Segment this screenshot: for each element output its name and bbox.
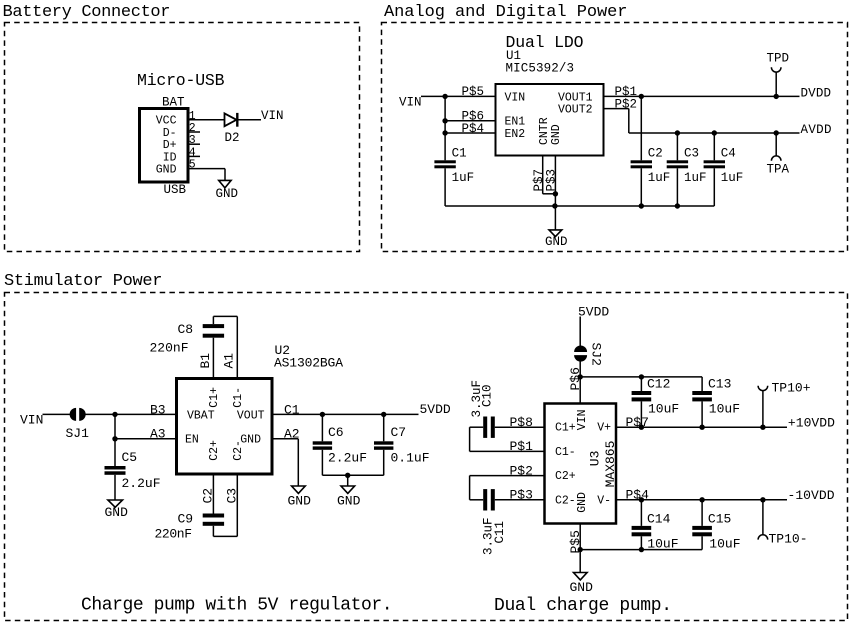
svg-text:C2: C2 <box>648 147 663 161</box>
svg-text:V-: V- <box>597 494 611 507</box>
svg-text:5: 5 <box>189 159 196 172</box>
svg-text:D+: D+ <box>163 139 177 152</box>
svg-text:TPA: TPA <box>767 163 790 177</box>
svg-text:SJ2: SJ2 <box>588 343 603 366</box>
svg-text:1: 1 <box>189 110 196 123</box>
svg-text:C10: C10 <box>481 384 495 407</box>
svg-text:2.2uF: 2.2uF <box>122 476 161 491</box>
svg-text:U3: U3 <box>587 451 602 467</box>
svg-text:-10VDD: -10VDD <box>788 488 835 503</box>
svg-text:C9: C9 <box>178 512 194 527</box>
svg-text:EN2: EN2 <box>505 128 526 141</box>
svg-text:C1-: C1- <box>232 387 245 408</box>
svg-text:C5: C5 <box>122 450 138 465</box>
svg-text:2.2uF: 2.2uF <box>328 451 367 466</box>
svg-text:GND: GND <box>545 235 568 249</box>
svg-text:AVDD: AVDD <box>801 123 832 137</box>
svg-text:VOUT: VOUT <box>237 409 265 422</box>
svg-text:C1+: C1+ <box>555 422 576 435</box>
svg-text:C2+: C2+ <box>208 440 221 461</box>
svg-text:Micro-USB: Micro-USB <box>137 71 225 90</box>
svg-text:VIN: VIN <box>576 409 589 430</box>
svg-text:VCC: VCC <box>156 115 177 128</box>
svg-text:P$3: P$3 <box>545 169 559 192</box>
svg-text:C7: C7 <box>391 425 407 440</box>
svg-text:C1: C1 <box>452 147 467 161</box>
svg-text:VIN: VIN <box>399 95 422 109</box>
svg-text:C2+: C2+ <box>555 470 576 483</box>
svg-text:0.1uF: 0.1uF <box>391 451 430 466</box>
svg-text:10uF: 10uF <box>648 402 679 417</box>
svg-text:GND: GND <box>156 164 177 177</box>
svg-text:TPD: TPD <box>767 52 790 66</box>
svg-text:MIC5392/3: MIC5392/3 <box>506 62 575 76</box>
svg-text:C2: C2 <box>200 488 215 504</box>
svg-text:C3: C3 <box>224 488 239 504</box>
svg-text:C14: C14 <box>647 512 671 527</box>
svg-text:D2: D2 <box>225 131 240 145</box>
svg-text:VOUT2: VOUT2 <box>558 104 593 117</box>
svg-text:1uF: 1uF <box>721 171 744 185</box>
svg-text:1uF: 1uF <box>648 171 671 185</box>
svg-text:Battery Connector: Battery Connector <box>3 3 171 22</box>
svg-text:SJ1: SJ1 <box>66 426 90 441</box>
svg-text:VIN: VIN <box>505 91 526 104</box>
svg-text:TP10+: TP10+ <box>772 381 811 396</box>
svg-text:5VDD: 5VDD <box>578 305 609 320</box>
svg-text:+10VDD: +10VDD <box>788 415 835 430</box>
svg-text:P$4: P$4 <box>626 488 650 503</box>
svg-text:10uF: 10uF <box>709 537 740 552</box>
svg-text:P$5: P$5 <box>462 85 485 99</box>
svg-text:GND: GND <box>105 505 129 520</box>
svg-text:AS1302BGA: AS1302BGA <box>274 356 343 371</box>
svg-text:C1: C1 <box>284 402 300 417</box>
svg-text:P$2: P$2 <box>510 463 533 478</box>
svg-text:ID: ID <box>163 151 177 164</box>
svg-text:VIN: VIN <box>20 412 43 427</box>
svg-text:P$8: P$8 <box>510 415 533 430</box>
svg-text:TP10-: TP10- <box>769 532 808 547</box>
svg-text:A1: A1 <box>222 353 237 369</box>
svg-text:C4: C4 <box>721 147 736 161</box>
svg-text:VOUT1: VOUT1 <box>558 91 593 104</box>
svg-text:3: 3 <box>189 134 196 147</box>
svg-text:Dual charge pump.: Dual charge pump. <box>494 596 672 616</box>
svg-text:A3: A3 <box>150 427 166 442</box>
svg-text:220nF: 220nF <box>150 340 189 355</box>
svg-text:P$6: P$6 <box>568 367 583 390</box>
svg-text:C15: C15 <box>708 512 731 527</box>
svg-text:GND: GND <box>576 492 589 513</box>
svg-text:GND: GND <box>337 493 361 508</box>
svg-text:C2-: C2- <box>555 494 576 507</box>
svg-text:2: 2 <box>189 122 196 135</box>
svg-text:4: 4 <box>189 146 196 159</box>
svg-text:B3: B3 <box>150 402 166 417</box>
svg-text:1uF: 1uF <box>452 171 475 185</box>
svg-text:D-: D- <box>163 127 177 140</box>
svg-text:B1: B1 <box>198 353 213 369</box>
svg-text:Analog and Digital Power: Analog and Digital Power <box>384 3 628 22</box>
svg-text:P$3: P$3 <box>510 488 533 503</box>
svg-text:1uF: 1uF <box>684 171 707 185</box>
svg-text:P$5: P$5 <box>568 530 583 553</box>
svg-text:C2-: C2- <box>232 440 245 461</box>
svg-text:C11: C11 <box>493 521 507 544</box>
svg-text:Stimulator Power: Stimulator Power <box>4 272 163 291</box>
svg-text:C1-: C1- <box>555 446 576 459</box>
svg-text:A2: A2 <box>284 427 300 442</box>
svg-text:CNTR: CNTR <box>538 117 551 145</box>
svg-text:GND: GND <box>216 187 239 201</box>
svg-text:C1+: C1+ <box>208 387 221 408</box>
svg-text:BAT: BAT <box>162 96 185 110</box>
svg-text:GND: GND <box>570 580 594 595</box>
svg-text:5VDD: 5VDD <box>420 402 451 417</box>
svg-text:C12: C12 <box>647 377 670 392</box>
svg-text:C8: C8 <box>178 322 194 337</box>
svg-text:VBAT: VBAT <box>187 409 215 422</box>
svg-text:P$7: P$7 <box>626 415 649 430</box>
svg-text:220nF: 220nF <box>155 527 193 542</box>
svg-text:C3: C3 <box>684 147 699 161</box>
svg-text:P$4: P$4 <box>462 122 485 136</box>
svg-text:GND: GND <box>550 124 563 145</box>
svg-text:10uF: 10uF <box>709 402 740 417</box>
svg-text:P$1: P$1 <box>510 439 534 454</box>
svg-text:Charge pump with 5V regulator.: Charge pump with 5V regulator. <box>81 595 393 615</box>
svg-text:V+: V+ <box>597 422 611 435</box>
svg-text:VIN: VIN <box>261 109 284 123</box>
svg-text:DVDD: DVDD <box>801 87 832 101</box>
svg-text:EN: EN <box>185 434 199 447</box>
svg-text:C6: C6 <box>328 425 344 440</box>
svg-text:C13: C13 <box>708 377 731 392</box>
svg-text:MAX865: MAX865 <box>603 441 618 488</box>
svg-text:EN1: EN1 <box>505 116 526 129</box>
svg-text:USB: USB <box>164 183 187 197</box>
svg-text:GND: GND <box>288 493 312 508</box>
